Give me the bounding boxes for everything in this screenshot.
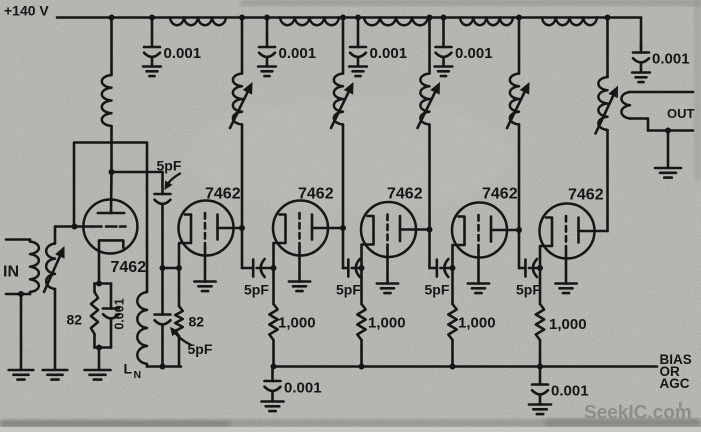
inductor rail RFC L4 [364, 18, 428, 26]
inductor input primary [30, 240, 39, 295]
inductor output secondary [621, 92, 648, 131]
wire cathode net bottom [95, 346, 112, 349]
node rail junction [605, 15, 611, 21]
resistor 1,000 stage 3 [269, 268, 277, 367]
node plate junction stage 3 [340, 225, 346, 231]
node rail junction [441, 15, 447, 21]
label 5pF upper [157, 158, 182, 174]
node rail junction [239, 15, 245, 21]
wire +140V rail [57, 16, 641, 19]
node T2 cathode junction [176, 265, 182, 271]
node rail junction [516, 15, 522, 21]
label AGC [660, 376, 690, 391]
svg-text:7462: 7462 [568, 187, 604, 204]
wire to T1 cathode ground [98, 348, 101, 370]
inductor plate RFC L1 [102, 18, 112, 173]
label 1,000 stage 4 [368, 315, 406, 332]
label 5pF stage 6 [516, 282, 541, 298]
svg-text:L: L [124, 361, 133, 377]
svg-text:1,000: 1,000 [278, 315, 316, 332]
label 1,000 stage 3 [278, 315, 316, 332]
svg-text:+140 V: +140 V [4, 3, 49, 19]
svg-text:7462: 7462 [111, 259, 147, 276]
arrow variable inductor stage 5 [507, 82, 530, 128]
svg-text:5pF: 5pF [244, 282, 269, 298]
inductor rail RFC L2 [170, 18, 226, 26]
label 7462 tube V6 [568, 187, 604, 204]
wire OUT to ground [667, 131, 670, 168]
capacitor 5pF coupling into stage 5 [430, 259, 453, 277]
capacitor C4 0.001 rail bypass [435, 18, 493, 77]
node OUT ground junction [665, 128, 671, 134]
wire T1 plate to 5pF [112, 171, 163, 174]
tube V5 7462 triode [452, 203, 519, 294]
svg-text:5pF: 5pF [516, 282, 541, 298]
node rail junction [149, 15, 155, 21]
label 5pF stage 3 [244, 282, 269, 298]
label 7462 tube V1 [111, 259, 147, 276]
node cathode junction stage 6 [537, 265, 543, 271]
label 5pF stage 5 [425, 282, 450, 298]
svg-text:OUT: OUT [667, 106, 695, 121]
svg-text:5pF: 5pF [157, 158, 182, 174]
svg-text:5pF: 5pF [425, 282, 450, 298]
svg-text:0.001: 0.001 [455, 45, 493, 62]
tube V6 7462 triode [540, 204, 608, 294]
capacitor C1 0.001 rail bypass [143, 18, 201, 77]
capacitor 5pF T1 plate coupling [155, 172, 171, 268]
wire IN to ground [20, 294, 23, 370]
label 82 left [67, 312, 83, 328]
arrow to 5pF lower [170, 327, 191, 345]
wire OUT top [629, 91, 694, 94]
label 7462 tube V3 [298, 186, 334, 203]
resistor 1,000 stage 5 [448, 268, 456, 367]
capacitor 5pF coupling into stage 4 [343, 259, 362, 277]
node plate junction stage 4 [427, 227, 433, 233]
node cathode junction stage 3 [271, 265, 277, 271]
capacitor 5pF coupling into stage 6 [519, 259, 540, 277]
node IN ground junction [18, 291, 24, 297]
svg-text:82: 82 [189, 314, 205, 330]
svg-text:1,000: 1,000 [368, 315, 406, 332]
inductor L_N neutralizing [137, 292, 147, 367]
ground output [655, 168, 681, 178]
label 7462 tube V5 [482, 186, 518, 203]
node rail junction [109, 15, 115, 21]
svg-text:AGC: AGC [660, 376, 690, 391]
node T1 grid junction [72, 224, 78, 230]
capacitor 0.001 cathode bypass [103, 284, 119, 348]
svg-text:7462: 7462 [482, 186, 518, 203]
svg-text:82: 82 [67, 312, 83, 328]
tube V4 7462 triode [361, 202, 430, 293]
wire grid feedback loop [74, 143, 147, 293]
arrow input variable inductor [44, 246, 65, 292]
node rail junction [340, 15, 346, 21]
svg-text:7462: 7462 [205, 186, 241, 203]
capacitor C5 0.001 rail bypass right [632, 44, 689, 82]
wire neutralizing net bottom [147, 365, 181, 368]
arrow to 5pF upper [165, 174, 181, 191]
arrow variable inductor stage 2 [230, 82, 253, 128]
ground input secondary [43, 370, 68, 380]
capacitor 0.001 bus decoupling left [261, 367, 321, 412]
svg-text:1,000: 1,000 [458, 315, 496, 332]
node rail junction [427, 15, 433, 21]
node T1 plate junction [109, 169, 115, 175]
node bus junction stage 6 [537, 364, 543, 370]
node A junction [160, 265, 166, 271]
resistor 82 T1 cathode [91, 284, 98, 348]
inductor tuned variable L5A tank stage 5 [510, 18, 519, 269]
wire cathode net top [95, 282, 112, 285]
inductor rail RFC L5 [460, 18, 513, 26]
label OUT [667, 106, 695, 121]
capacitor C3 0.001 rail bypass [349, 18, 407, 77]
node rail junction [355, 15, 361, 21]
svg-text:5pF: 5pF [336, 282, 361, 298]
inductor rail RFC L6 [542, 18, 597, 26]
node cathode junction stage 4 [359, 265, 365, 271]
wire rail right drop [640, 18, 643, 49]
capacitor 5pF coupling into stage 3 [242, 259, 274, 277]
label 1,000 stage 6 [549, 316, 587, 333]
svg-text:0.001: 0.001 [370, 45, 408, 62]
node bus junction stage 5 [450, 364, 456, 370]
label IN [3, 264, 19, 281]
wire BIAS/AGC bus [273, 365, 658, 368]
label 5pF stage 4 [336, 282, 361, 298]
tube V2 7462 triode [179, 201, 243, 292]
wire grid to input coil [55, 225, 92, 228]
arrow variable inductor stage 6 [596, 86, 619, 134]
label L_N [124, 361, 142, 382]
node plate junction stage 5 [516, 227, 522, 233]
svg-text:N: N [134, 369, 142, 381]
label BIAS [660, 352, 692, 367]
svg-text:0.001: 0.001 [279, 45, 317, 62]
label OR [660, 364, 681, 379]
svg-text:7462: 7462 [298, 186, 334, 203]
tube V1 7462 triode [83, 172, 137, 284]
resistor 1,000 stage 4 [357, 268, 365, 367]
node cathode net bottom junction [96, 345, 102, 351]
label 7462 tube V2 [205, 186, 241, 203]
svg-text:0.001: 0.001 [652, 51, 690, 68]
arrow variable inductor stage 4 [418, 82, 441, 128]
label 0.001 rotated [113, 298, 127, 329]
svg-text:SeekIC.com: SeekIC.com [584, 403, 692, 424]
tube V3 7462 triode [273, 201, 343, 292]
label 7462 tube V4 [387, 186, 423, 203]
ground T1 cathode [85, 370, 111, 380]
svg-text:5pF: 5pF [188, 341, 213, 357]
capacitor 5pF neutralizing [155, 268, 171, 367]
svg-text:7462: 7462 [387, 186, 423, 203]
label 82 right [189, 314, 205, 330]
label +140V supply [4, 3, 49, 19]
svg-text:0.001: 0.001 [284, 380, 322, 397]
svg-text:0.001: 0.001 [551, 383, 589, 400]
inductor input tuned secondary [46, 227, 55, 370]
node bus junction stage 4 [359, 364, 365, 370]
svg-text:0.001: 0.001 [164, 45, 202, 62]
resistor 82 T2 cathode [175, 268, 183, 367]
inductor rail RFC L3 [280, 18, 339, 26]
resistor 1,000 stage 6 [536, 268, 544, 367]
wire IN bottom [6, 293, 30, 296]
node bus junction stage 3 [271, 364, 277, 370]
arrow variable inductor stage 3 [331, 82, 354, 128]
svg-text:1,000: 1,000 [549, 316, 587, 333]
label 1,000 stage 5 [458, 315, 496, 332]
inductor tuned variable L3A tank stage 3 [334, 18, 343, 269]
wire OUT bottom [648, 129, 693, 132]
node neutralizing bottom junction [160, 364, 166, 370]
watermark SeekIC.com [584, 402, 692, 424]
node T1 cathode junction [96, 281, 102, 287]
inductor tuned variable L6A tank stage 6 [598, 18, 607, 232]
svg-text:IN: IN [3, 264, 19, 281]
node plate junction stage 2 [239, 225, 245, 231]
wire node A to T2 cathode [163, 267, 180, 270]
wire IN top [6, 238, 30, 241]
node rail junction [264, 15, 270, 21]
capacitor 0.001 bus decoupling right [529, 367, 589, 415]
node cathode junction stage 5 [450, 265, 456, 271]
ground input [9, 370, 34, 380]
inductor tuned variable L2A tank stage 2 [233, 18, 242, 269]
svg-text:0.001: 0.001 [113, 298, 127, 329]
inductor tuned variable L4A tank stage 4 [420, 18, 429, 269]
capacitor C2 0.001 rail bypass [258, 18, 316, 77]
label 5pF lower [188, 341, 213, 357]
